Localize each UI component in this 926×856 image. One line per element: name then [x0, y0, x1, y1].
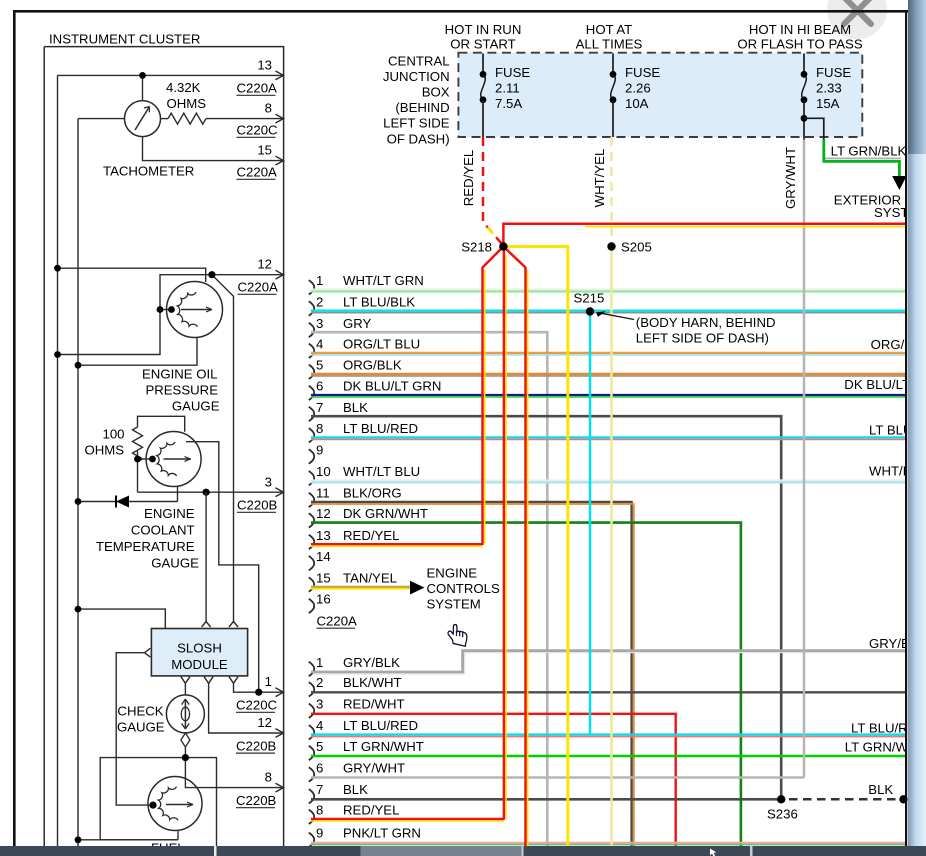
pin 6 DK BLU/LT GRN C220A [309, 379, 442, 400]
svg-text:8: 8 [265, 770, 272, 785]
wire check gauge bottom [184, 747, 186, 758]
pin label 8 C220B [236, 770, 277, 808]
svg-text:ENGINE OIL: ENGINE OIL [142, 367, 217, 382]
wire WHT/YEL dashed fuse2 [610, 137, 613, 247]
splice S218 [461, 224, 906, 846]
svg-text:BLK: BLK [343, 400, 368, 415]
wire LT BLU/RED pin 8 C220A [311, 436, 906, 438]
pin 10 WHT/LT BLU C220A [309, 464, 420, 485]
svg-text:C220B: C220B [236, 793, 277, 808]
wire WHT/LT BLU pin 10 C220A [311, 479, 906, 481]
wire RED/WHT lower pin 3 [311, 714, 676, 846]
svg-text:14: 14 [316, 549, 331, 564]
svg-text:WHT/YEL: WHT/YEL [592, 149, 607, 208]
svg-text:16: 16 [316, 592, 331, 607]
wire slosh left to fuel coil [116, 653, 150, 805]
fuse 2.11 7.5A [480, 54, 531, 138]
svg-text:CHECK: CHECK [117, 704, 163, 719]
pin 1 WHT/LT GRN C220A [309, 273, 424, 294]
pin 3 GRY C220A [309, 316, 372, 337]
svg-text:LEFT SIDE: LEFT SIDE [383, 116, 450, 131]
label CHECK GAUGE [117, 704, 165, 735]
svg-text:RED/YEL: RED/YEL [343, 528, 399, 543]
wire diode line [78, 501, 178, 503]
wire GRY/WHT fuse3 [803, 140, 806, 778]
wire check dot to fuel bottom loop [100, 758, 185, 840]
wire pin12 C220B line [209, 683, 283, 733]
pin 16 (blank) C220A [309, 592, 331, 613]
svg-text:S205: S205 [621, 239, 652, 254]
svg-text:OR START: OR START [450, 37, 515, 52]
svg-text:HOT AT: HOT AT [586, 22, 632, 37]
svg-text:(BEHIND: (BEHIND [395, 100, 449, 115]
connector chevrons slosh [145, 622, 239, 684]
wire WHT/LT GRN pin 1 C220A [311, 289, 906, 291]
wire BLK/WHT lower pin 2 [311, 691, 906, 693]
close button [827, 0, 887, 39]
wire tach left [78, 118, 125, 120]
svg-text:CONTROLS: CONTROLS [427, 581, 500, 596]
fuel gauge [148, 777, 202, 831]
label EXTERIOR LIGHTING SYSTEM [834, 192, 926, 220]
wire pin8 C220B line [185, 758, 283, 788]
right scrollbar [908, 0, 926, 856]
wire LT GRN/BLK [824, 140, 900, 177]
label ENGINE OIL PRESSURE GAUGE [142, 367, 220, 414]
wire coolant top right to slosh pin A [186, 442, 259, 693]
label CENTRAL JUNCTION BOX (BEHIND LEFT SIDE OF DASH) [383, 53, 450, 146]
fuse 2.26 10A [610, 54, 661, 138]
svg-text:OR FLASH TO PASS: OR FLASH TO PASS [737, 37, 863, 52]
pin 3 RED/WHT lower connector [309, 697, 405, 718]
svg-text:10: 10 [316, 464, 331, 479]
junction dot tach/pin13 [139, 72, 146, 79]
svg-text:LEFT SIDE OF DASH): LEFT SIDE OF DASH) [636, 331, 769, 346]
annotation arrow body harness [598, 313, 634, 320]
svg-text:WHT/LT GRN: WHT/LT GRN [343, 273, 424, 288]
svg-text:4.32K: 4.32K [166, 80, 201, 95]
svg-text:13: 13 [316, 528, 331, 543]
svg-text:BLK: BLK [868, 782, 893, 797]
svg-text:C220B: C220B [237, 498, 278, 513]
junction dots check/fuel [75, 754, 189, 843]
connector diamond below check gauge [181, 733, 190, 747]
pin label 13 C220A [237, 58, 278, 96]
svg-text:ALL TIMES: ALL TIMES [576, 37, 643, 52]
label HOT IN HI BEAM OR FLASH TO PASS [737, 22, 863, 52]
wire RED/YEL dashed fuse1 [483, 137, 502, 244]
label ENGINE COOLANT TEMPERATURE GAUGE [96, 506, 199, 571]
svg-text:RED/YEL: RED/YEL [343, 803, 399, 818]
wire TAN/YEL pin 15 C220A [311, 586, 410, 588]
hand cursor [448, 625, 467, 647]
svg-text:4: 4 [316, 718, 323, 733]
wire bus2 to slosh [78, 609, 165, 628]
svg-text:PNK/LT GRN: PNK/LT GRN [343, 826, 421, 841]
arrow to engine controls system [410, 581, 425, 595]
svg-text:12: 12 [257, 715, 272, 730]
svg-text:LT BLU/RED: LT BLU/RED [343, 718, 418, 733]
svg-text:100: 100 [102, 427, 124, 442]
svg-text:ENGINE: ENGINE [427, 566, 478, 581]
pin 9 PNK/LT GRN lower connector [309, 826, 421, 847]
junction dot pin1 line [255, 689, 262, 696]
svg-text:3: 3 [316, 316, 323, 331]
svg-text:GRY/WHT: GRY/WHT [343, 760, 405, 775]
label HOT IN RUN OR START [445, 22, 522, 52]
wire tach top stem [142, 75, 144, 100]
pin 5 LT GRN/WHT lower connector [309, 739, 424, 760]
svg-text:HOT IN RUN: HOT IN RUN [445, 22, 522, 37]
bottom bar [0, 846, 926, 856]
wire diagonal to slosh pin B [212, 275, 234, 622]
wire bus1 to oil gauge top [58, 268, 206, 282]
wire pin12 left branch [58, 275, 212, 355]
pin label 8 C220C [237, 101, 279, 138]
pin label 15 C220A [237, 143, 278, 180]
wire RED/YEL branch to pin13 [483, 247, 504, 546]
oil gauge wiring [58, 268, 284, 621]
wire BLK pin 7 C220A [311, 416, 781, 799]
svg-text:1: 1 [316, 273, 323, 288]
wire fuel gauge bottom stem [78, 830, 178, 840]
label LT GRN/BLK underline [824, 157, 901, 159]
wire DK GRN/WHT pin 12 C220A [311, 523, 741, 846]
pin 9 (blank) C220A [309, 442, 324, 463]
splice S215 [574, 290, 605, 734]
svg-text:2.26: 2.26 [625, 81, 651, 96]
svg-text:C220A: C220A [237, 81, 278, 96]
svg-text:TAN/YEL: TAN/YEL [343, 570, 397, 585]
svg-text:8: 8 [316, 421, 323, 436]
svg-text:BOX: BOX [422, 85, 450, 100]
svg-text:(BODY HARN, BEHIND: (BODY HARN, BEHIND [636, 315, 776, 330]
svg-text:3: 3 [265, 475, 272, 490]
tachometer gauge [125, 101, 161, 137]
pin 4 ORG/LT BLU C220A [309, 337, 420, 358]
check gauge wiring [78, 683, 283, 846]
wire GRY pin 3 C220A [311, 332, 547, 846]
svg-text:FUSE: FUSE [495, 65, 530, 80]
svg-text:HOT IN HI BEAM: HOT IN HI BEAM [749, 22, 851, 37]
svg-text:BLK/WHT: BLK/WHT [343, 675, 402, 690]
svg-text:OHMS: OHMS [84, 443, 124, 458]
label ENGINE CONTROLS SYSTEM [427, 566, 500, 612]
wire bus1 [57, 75, 59, 846]
svg-text:GRY/BLK: GRY/BLK [343, 655, 400, 670]
wire coil tap [160, 309, 172, 311]
pin label 12 C220B [236, 715, 277, 753]
coolant gauge wiring [78, 416, 283, 692]
label C220A [317, 613, 358, 628]
svg-text:9: 9 [316, 442, 323, 457]
junction dot fuse3 branch [801, 115, 808, 122]
wire RED/YEL lower pin 8 [311, 818, 504, 820]
wire coolant bottom stem [177, 486, 179, 501]
svg-text:SYSTEM: SYSTEM [427, 597, 481, 612]
svg-text:10A: 10A [625, 96, 649, 111]
pin 11 BLK/ORG C220A [309, 486, 402, 507]
svg-text:6: 6 [316, 379, 323, 394]
wire pin3 line [138, 491, 284, 493]
check gauge [166, 695, 204, 747]
svg-text:ORG/BLK: ORG/BLK [343, 358, 402, 373]
svg-text:13: 13 [257, 58, 272, 73]
svg-text:11: 11 [316, 486, 330, 501]
wire fuse3 branch [804, 118, 824, 139]
pin 15 TAN/YEL C220A [309, 570, 397, 591]
svg-text:SLOSH: SLOSH [177, 641, 222, 656]
svg-text:8: 8 [265, 101, 272, 116]
wire slosh to check gauge [184, 683, 186, 695]
wire ORG/LT BLU pin 4 C220A [311, 352, 906, 354]
svg-text:12: 12 [316, 506, 331, 521]
svg-text:OHMS: OHMS [167, 96, 207, 111]
svg-text:MODULE: MODULE [171, 657, 228, 672]
diode [116, 496, 129, 508]
svg-text:LT GRN/WHT: LT GRN/WHT [343, 739, 424, 754]
svg-text:GAUGE: GAUGE [117, 720, 165, 735]
splice S236 [767, 795, 908, 822]
svg-text:5: 5 [316, 358, 323, 373]
splice S205 [607, 239, 652, 846]
wire coil tap coolant [138, 458, 153, 460]
wire yellow from S218 [507, 247, 568, 847]
wire resistor lead [161, 118, 169, 120]
svg-text:C220A: C220A [238, 280, 279, 295]
resistor 4.32K zigzag [168, 113, 206, 124]
svg-text:1: 1 [265, 674, 272, 689]
wire ORG/BLK pin 5 C220A [311, 373, 906, 375]
slosh module box [151, 629, 247, 676]
svg-text:GRY/WHT: GRY/WHT [783, 147, 798, 209]
svg-text:12: 12 [257, 257, 272, 272]
coolant temperature gauge [146, 432, 201, 487]
svg-text:15A: 15A [816, 96, 840, 111]
svg-text:S236: S236 [767, 807, 798, 822]
resistor 100 OHMS zigzag [133, 427, 143, 462]
wire pin1 C220C line [234, 683, 284, 692]
svg-text:C220A: C220A [237, 165, 278, 180]
svg-text:TACHOMETER: TACHOMETER [103, 164, 194, 179]
svg-text:7: 7 [316, 400, 323, 415]
svg-text:LT GRN/BLK: LT GRN/BLK [831, 143, 907, 158]
pin 6 GRY/WHT lower connector [309, 760, 405, 781]
svg-text:OF DASH): OF DASH) [387, 131, 450, 146]
wire slosh top pin from coolant [205, 492, 207, 621]
svg-text:RED/YEL: RED/YEL [461, 150, 476, 206]
svg-text:FUSE: FUSE [625, 65, 660, 80]
svg-text:DK GRN/WHT: DK GRN/WHT [343, 506, 428, 521]
svg-text:INSTRUMENT CLUSTER: INSTRUMENT CLUSTER [49, 32, 200, 47]
svg-text:3: 3 [316, 697, 323, 712]
wire oil gauge bottom [78, 337, 197, 365]
pin 2 LT BLU/BLK C220A [309, 294, 415, 315]
svg-text:PRESSURE: PRESSURE [145, 383, 218, 398]
wire PNK/LT GRN lower pin 9 [311, 842, 906, 844]
svg-text:RED/WHT: RED/WHT [343, 697, 405, 712]
pin 8 LT BLU/RED C220A [309, 421, 418, 442]
wire LT BLU/BLK pin 2 C220A [311, 310, 906, 312]
svg-text:ENGINE: ENGINE [144, 506, 195, 521]
svg-text:ORG/LT BLU: ORG/LT BLU [343, 337, 420, 352]
wire pin13 line [58, 74, 284, 76]
wire RED/YEL pin 13 C220A [311, 543, 483, 545]
oil pressure gauge [167, 282, 223, 338]
svg-text:7.5A: 7.5A [495, 96, 522, 111]
pin label 3 C220B [237, 475, 278, 513]
right edge wire labels [844, 337, 926, 755]
svg-text:GAUGE: GAUGE [172, 399, 220, 414]
svg-text:6: 6 [316, 760, 323, 775]
junction dots oil gauge [54, 265, 215, 369]
arrowhead exterior lighting [892, 176, 906, 190]
wire check dot right down [185, 758, 216, 846]
wire resistor bottom [137, 451, 139, 492]
junction dots coolant [75, 456, 210, 505]
pin 5 ORG/BLK C220A [309, 358, 402, 379]
svg-text:WHT/LT BLU: WHT/LT BLU [343, 464, 420, 479]
svg-text:1: 1 [316, 655, 323, 670]
pin label 1 C220C [236, 674, 278, 712]
pin 12 DK GRN/WHT C220A [309, 506, 428, 527]
label 100 OHMS [84, 427, 124, 458]
wire bus2 [77, 119, 79, 846]
svg-text:2.11: 2.11 [495, 81, 520, 96]
svg-text:GRY: GRY [343, 316, 372, 331]
svg-text:C220C: C220C [237, 123, 279, 138]
pin 4 LT BLU/RED lower connector [309, 718, 418, 739]
svg-text:5: 5 [316, 739, 323, 754]
svg-text:CENTRAL: CENTRAL [388, 53, 450, 68]
svg-text:TEMPERATURE: TEMPERATURE [96, 539, 195, 554]
wire resistor top loop [138, 416, 185, 432]
svg-text:2.33: 2.33 [816, 81, 842, 96]
pin 2 BLK/WHT lower connector [309, 675, 402, 696]
wire BLK lower pin 7 [311, 798, 781, 801]
wire RED/YEL main to right edge [503, 224, 906, 247]
wire RED/YEL branch right [503, 247, 525, 847]
svg-text:LT BLU/RED: LT BLU/RED [343, 421, 418, 436]
svg-text:COOLANT: COOLANT [131, 522, 195, 537]
svg-text:15: 15 [257, 143, 272, 158]
instrument cluster box [44, 47, 283, 846]
svg-text:7: 7 [316, 782, 323, 797]
svg-text:C220B: C220B [236, 738, 277, 753]
svg-text:BLK/ORG: BLK/ORG [343, 486, 402, 501]
label HOT AT ALL TIMES [576, 22, 643, 52]
wire DK BLU/LT GRN pin 6 C220A [311, 394, 906, 396]
fuse 2.33 15A [801, 54, 852, 140]
wire RED/YEL branch middle [503, 247, 506, 820]
svg-text:15: 15 [316, 570, 331, 585]
svg-text:C220A: C220A [317, 613, 358, 628]
central junction box [458, 53, 862, 137]
wire BLK/ORG pin 11 C220A [311, 502, 632, 846]
pin 14 (blank) C220A [309, 549, 331, 570]
wire GRY/WHT lower pin 6 [311, 776, 804, 779]
svg-text:8: 8 [316, 803, 323, 818]
svg-text:DK BLU/LT GRN: DK BLU/LT GRN [343, 379, 441, 394]
wire LT BLU/RED lower pin 4 [311, 733, 906, 735]
pin 7 BLK lower connector [309, 782, 368, 803]
svg-text:LT BLU/BLK: LT BLU/BLK [343, 294, 415, 309]
svg-text:S218: S218 [461, 239, 492, 254]
svg-text:S215: S215 [574, 290, 605, 305]
svg-text:4: 4 [316, 337, 323, 352]
svg-text:JUNCTION: JUNCTION [383, 69, 450, 84]
svg-text:2: 2 [316, 294, 323, 309]
wire pin12 line [212, 274, 283, 276]
junction dot bus2 slosh [75, 606, 82, 613]
svg-text:2: 2 [316, 675, 323, 690]
wire pin8 line [206, 118, 283, 120]
slosh module wiring [78, 492, 206, 805]
svg-text:C220C: C220C [236, 698, 278, 713]
pin 1 GRY/BLK lower connector [309, 655, 400, 676]
svg-text:GAUGE: GAUGE [151, 555, 199, 570]
pin 7 BLK C220A [309, 400, 368, 421]
wire LT GRN/WHT lower pin 5 [311, 755, 906, 758]
svg-text:BLK: BLK [343, 782, 368, 797]
pin 8 RED/YEL lower connector [309, 803, 400, 824]
wire GRY/BLK lower pin 1 [311, 651, 906, 672]
pin 13 RED/YEL C220A [309, 528, 400, 549]
svg-text:FUSE: FUSE [816, 65, 851, 80]
pin label 12 C220A [238, 257, 279, 295]
svg-text:9: 9 [316, 826, 323, 841]
wire tach bottom to pin15 [143, 137, 284, 161]
